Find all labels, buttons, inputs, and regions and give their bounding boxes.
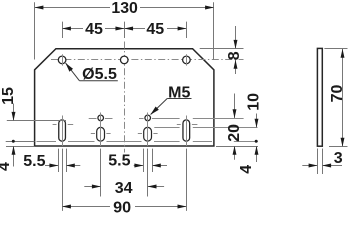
dimension 45 right bbox=[124, 21, 186, 38]
row line slot tops bbox=[53, 125, 258, 134]
label M5 leader bbox=[151, 84, 192, 114]
svg-text:90: 90 bbox=[113, 199, 131, 216]
svg-text:M5: M5 bbox=[168, 84, 190, 101]
dimension 130 bbox=[35, 0, 214, 59]
dimension 45 left bbox=[62, 21, 124, 38]
slot S3 5.5x10 bbox=[97, 113, 105, 147]
row line slot bottoms bbox=[37, 141, 258, 143]
side view plate section bbox=[317, 48, 322, 146]
dimension 5.5 right bbox=[108, 149, 167, 172]
centerline M5 hole row bbox=[89, 118, 244, 120]
hole M5 left bbox=[98, 115, 104, 121]
dimension 90 bbox=[62, 149, 186, 217]
dimension 5.5 left bbox=[23, 149, 80, 172]
centerline vertical plate axis bbox=[124, 42, 126, 153]
svg-text:15: 15 bbox=[0, 87, 17, 105]
plate outline (front view) bbox=[35, 49, 214, 146]
dimension 8 bbox=[200, 26, 244, 74]
hole H2 Ø5.5 bbox=[120, 56, 128, 64]
svg-text:5.5: 5.5 bbox=[23, 153, 45, 170]
dimension 10 bbox=[245, 93, 262, 143]
slot S2 5.5x15 bbox=[183, 116, 190, 147]
svg-text:70: 70 bbox=[329, 85, 346, 103]
svg-text:8: 8 bbox=[226, 51, 243, 60]
svg-text:130: 130 bbox=[111, 0, 138, 17]
slot S1 5.5x15 bbox=[59, 116, 66, 147]
centerline top hole row bbox=[51, 59, 244, 61]
svg-text:4: 4 bbox=[238, 165, 255, 174]
svg-text:5.5: 5.5 bbox=[108, 153, 130, 170]
svg-text:4: 4 bbox=[0, 162, 13, 171]
dimension 70 bbox=[324, 49, 347, 147]
dimension 34 bbox=[84, 149, 164, 197]
slot S4 5.5x10 bbox=[144, 113, 152, 147]
dimension 15 bbox=[0, 87, 66, 121]
hole M5 right bbox=[145, 115, 151, 121]
svg-text:Ø5.5: Ø5.5 bbox=[82, 66, 117, 83]
dimension 4 left bbox=[0, 140, 35, 171]
label Ø5.5 leader bbox=[66, 63, 118, 83]
svg-text:3: 3 bbox=[334, 150, 343, 167]
dimension 3 bbox=[302, 149, 342, 175]
hole H1 Ø5.5 bbox=[58, 54, 66, 65]
svg-text:45: 45 bbox=[146, 21, 164, 38]
svg-text:34: 34 bbox=[115, 180, 133, 197]
svg-text:10: 10 bbox=[245, 93, 262, 111]
hole H3 Ø5.5 bbox=[183, 54, 191, 65]
svg-text:45: 45 bbox=[85, 21, 103, 38]
dimension 4 right bbox=[238, 146, 256, 174]
svg-text:20: 20 bbox=[226, 124, 243, 142]
dimension 20 bbox=[216, 94, 258, 160]
